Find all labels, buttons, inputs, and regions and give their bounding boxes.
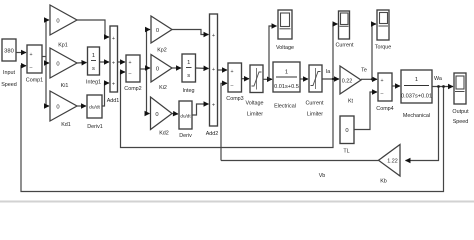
svg-text:0: 0 (56, 19, 59, 25)
svg-text:–: – (381, 91, 384, 97)
svg-text:0: 0 (155, 112, 158, 118)
svg-text:Kd2: Kd2 (159, 131, 169, 137)
svg-text:0: 0 (345, 128, 348, 134)
svg-text:Comp3: Comp3 (226, 96, 243, 102)
svg-text:0: 0 (56, 62, 59, 68)
svg-text:–: – (129, 71, 132, 77)
svg-text:Comp1: Comp1 (26, 78, 43, 84)
svg-text:Comp4: Comp4 (376, 106, 393, 112)
svg-text:Output: Output (452, 109, 469, 115)
svg-text:380: 380 (4, 49, 14, 55)
svg-text:Speed: Speed (1, 82, 17, 88)
svg-text:1: 1 (415, 77, 418, 83)
svg-text:0: 0 (156, 67, 159, 73)
svg-text:1: 1 (285, 70, 288, 76)
svg-text:Speed: Speed (453, 119, 469, 125)
svg-text:–: – (30, 65, 33, 71)
svg-text:Voltage: Voltage (276, 45, 294, 51)
svg-text:Electrical: Electrical (274, 104, 296, 110)
svg-text:+: + (212, 33, 215, 39)
svg-text:+: + (128, 60, 131, 66)
svg-text:0.01s+0.5: 0.01s+0.5 (274, 84, 299, 90)
svg-text:Wa: Wa (434, 76, 442, 82)
svg-text:+: + (112, 82, 115, 88)
svg-text:Torque: Torque (375, 45, 391, 51)
svg-text:Kd1: Kd1 (61, 122, 71, 128)
svg-text:+: + (212, 67, 215, 73)
svg-text:1: 1 (187, 60, 190, 66)
svg-text:du/dt: du/dt (89, 105, 100, 111)
svg-text:s: s (92, 66, 95, 72)
svg-text:0: 0 (156, 28, 159, 34)
svg-text:Current: Current (336, 43, 354, 49)
svg-text:Vb: Vb (319, 173, 326, 179)
svg-text:+: + (29, 52, 32, 58)
svg-text:Add2: Add2 (206, 131, 219, 137)
svg-text:Mechanical: Mechanical (403, 113, 430, 119)
svg-text:–: – (231, 83, 234, 89)
svg-text:Limiter: Limiter (247, 112, 263, 118)
svg-text:s: s (187, 73, 190, 79)
svg-text:+: + (112, 36, 115, 42)
svg-text:0.037s+0.01: 0.037s+0.01 (401, 94, 432, 100)
svg-text:Deriv1: Deriv1 (87, 124, 103, 130)
svg-text:Kp2: Kp2 (157, 48, 167, 54)
svg-text:TL: TL (343, 149, 349, 155)
svg-text:Ki2: Ki2 (159, 85, 167, 91)
svg-text:Ki1: Ki1 (61, 83, 69, 89)
svg-text:+: + (380, 78, 383, 84)
svg-text:Current: Current (306, 101, 324, 107)
svg-text:+: + (212, 103, 215, 109)
svg-text:0.22: 0.22 (342, 79, 353, 85)
svg-text:1.22: 1.22 (387, 159, 398, 165)
svg-text:0: 0 (56, 105, 59, 111)
svg-text:+: + (112, 61, 115, 67)
svg-text:+: + (230, 69, 233, 75)
svg-text:du/dt: du/dt (180, 114, 191, 119)
svg-text:Te: Te (361, 68, 367, 74)
svg-text:Voltage: Voltage (246, 101, 264, 107)
svg-text:Limiter: Limiter (307, 112, 323, 118)
svg-text:Integ: Integ (183, 88, 195, 94)
svg-text:Input: Input (3, 70, 15, 76)
svg-text:Deriv: Deriv (179, 133, 192, 139)
svg-text:Kb: Kb (380, 179, 387, 185)
svg-text:1: 1 (92, 53, 95, 59)
svg-text:Ia: Ia (326, 69, 331, 75)
svg-text:Add1: Add1 (107, 98, 120, 104)
svg-text:Kt: Kt (348, 99, 354, 105)
svg-text:Comp2: Comp2 (124, 86, 141, 92)
svg-text:Kp1: Kp1 (58, 43, 68, 49)
svg-text:Integ1: Integ1 (86, 80, 101, 86)
